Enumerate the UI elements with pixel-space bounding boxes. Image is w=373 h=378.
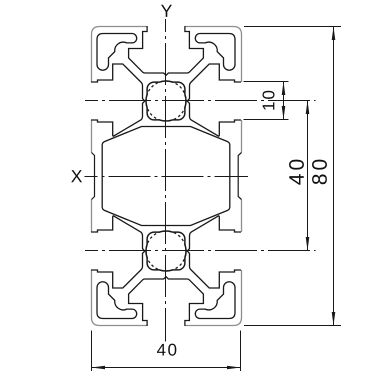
dim 40 bottom line [92, 367, 241, 369]
dim 40 bottom text [157, 344, 176, 356]
central cavity [102, 127, 230, 226]
lower quarter centerline [85, 250, 316, 252]
dim 10 extension lines [244, 82, 289, 120]
profile outer contour [92, 27, 242, 326]
dim 10 line [283, 82, 285, 120]
left mid notch [92, 153, 95, 200]
bottom cell cavities [91, 216, 241, 326]
right mid notch [238, 153, 241, 200]
dim 40 right line [307, 101, 309, 251]
Y centerline [165, 19, 167, 342]
dim 40 bottom extension lines [92, 331, 241, 372]
X centerline [85, 176, 249, 178]
X axis label [71, 170, 82, 182]
Y axis label [161, 5, 172, 17]
top cell cavities [91, 26, 241, 136]
dim 80 extension lines [244, 27, 341, 326]
dim 80 text [312, 160, 327, 185]
upper quarter centerline [85, 100, 316, 102]
dim 80 line [333, 27, 335, 326]
dim 40 right text [289, 160, 304, 185]
dim 10 text [262, 91, 274, 110]
